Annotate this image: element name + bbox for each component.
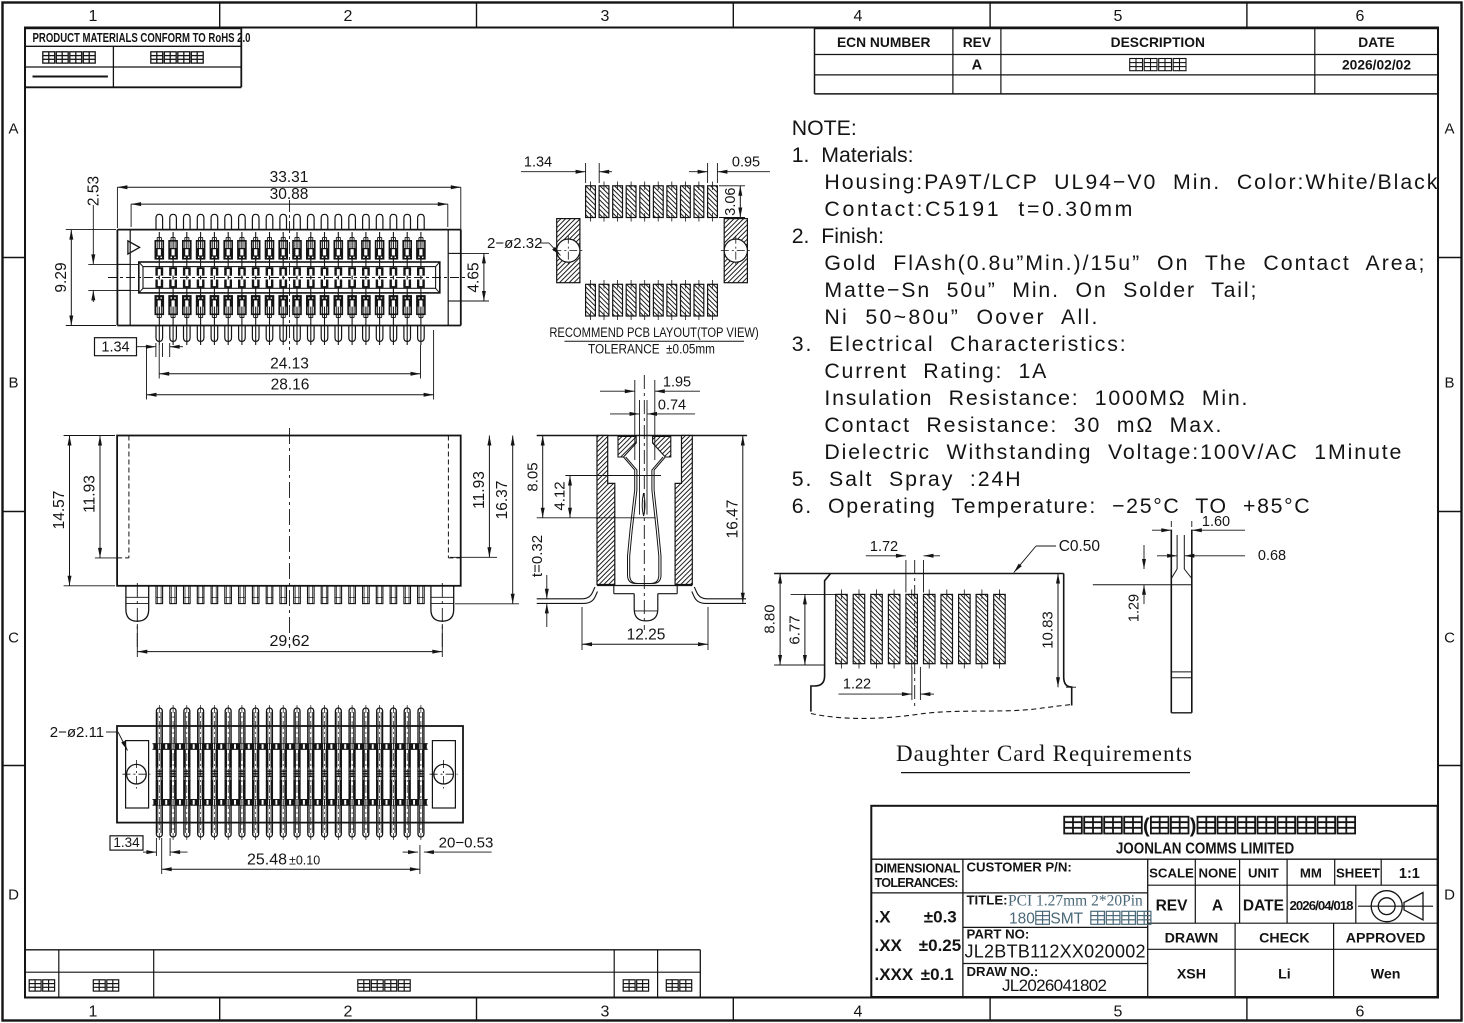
svg-text:±0.10: ±0.10 [289, 854, 320, 868]
svg-text:0.74: 0.74 [658, 397, 686, 413]
svg-text:JOONLAN COMMS LIMITED: JOONLAN COMMS LIMITED [1116, 841, 1295, 858]
svg-text:±0.25: ±0.25 [919, 936, 961, 955]
svg-text:Housing:PA9T/LCP UL94−V0 Min: Housing:PA9T/LCP UL94−V0 Min. Color:Whit… [824, 170, 1437, 194]
svg-text:.XX: .XX [875, 936, 903, 955]
svg-text:DESCRIPTION: DESCRIPTION [1111, 35, 1205, 50]
svg-text:DATE: DATE [1358, 35, 1395, 50]
svg-text:MM: MM [1300, 866, 1322, 881]
svg-text:1:1: 1:1 [1399, 866, 1420, 882]
svg-text:5: 5 [1114, 8, 1123, 25]
svg-text:APPROVED: APPROVED [1346, 931, 1426, 947]
svg-text:SHEET: SHEET [1336, 866, 1380, 881]
svg-text:1.60: 1.60 [1202, 514, 1230, 530]
svg-text:2−ø2.11: 2−ø2.11 [50, 724, 104, 741]
svg-text:24.13: 24.13 [270, 356, 309, 373]
svg-text:25.48: 25.48 [247, 852, 287, 869]
svg-text:16.47: 16.47 [725, 500, 742, 539]
svg-text:3. Electrical Characteristic: 3. Electrical Characteristics: [792, 332, 1126, 356]
svg-text:A: A [1444, 121, 1454, 138]
svg-text:TOLERANCE ±0.05mm: TOLERANCE ±0.05mm [588, 341, 715, 357]
svg-text:12.25: 12.25 [627, 627, 666, 644]
svg-text:A: A [972, 58, 983, 74]
svg-text:SCALE: SCALE [1149, 866, 1194, 881]
svg-text:6: 6 [1356, 1004, 1365, 1021]
svg-text:TITLE:: TITLE: [967, 893, 1008, 908]
svg-text:(: ( [1143, 816, 1150, 838]
svg-text:1.34: 1.34 [524, 155, 552, 171]
svg-text:NONE: NONE [1198, 866, 1236, 881]
svg-text:A: A [1212, 898, 1223, 915]
svg-text:8.80: 8.80 [762, 604, 779, 633]
svg-text:4.12: 4.12 [552, 481, 569, 510]
svg-text:16.37: 16.37 [494, 481, 511, 520]
svg-text:Matte−Sn 50u” Min. On Sold: Matte−Sn 50u” Min. On Solder Tail; [824, 278, 1256, 302]
svg-text:C: C [8, 630, 19, 647]
svg-text:2. Finish:: 2. Finish: [792, 224, 884, 248]
svg-text:Gold FlAsh(0.8u”Min.)/15u” O: Gold FlAsh(0.8u”Min.)/15u” On The Contac… [824, 251, 1424, 275]
svg-text:2: 2 [344, 1004, 353, 1021]
svg-text:Contact:C5191 t=0.30mm: Contact:C5191 t=0.30mm [824, 197, 1132, 221]
svg-text:28.16: 28.16 [271, 377, 310, 394]
svg-text:Current Rating: 1A: Current Rating: 1A [824, 359, 1047, 383]
svg-text:4.65: 4.65 [466, 262, 483, 292]
svg-text:1: 1 [89, 8, 98, 25]
svg-text:1.95: 1.95 [663, 375, 691, 391]
svg-text:8.05: 8.05 [525, 462, 542, 491]
svg-text:3: 3 [601, 8, 610, 25]
svg-text:.XXX: .XXX [875, 965, 914, 984]
svg-text:33.31: 33.31 [270, 169, 309, 186]
svg-text:PCI 1.27mm 2*20Pin: PCI 1.27mm 2*20Pin [1008, 893, 1143, 910]
svg-text:Insulation Resistance: 1000M: Insulation Resistance: 1000MΩ Min. [824, 386, 1247, 410]
svg-text:30.88: 30.88 [270, 186, 309, 203]
svg-text:Dielectric Withstanding Volt: Dielectric Withstanding Voltage:100V/AC … [824, 440, 1401, 464]
svg-text:0.95: 0.95 [732, 155, 760, 171]
svg-text:5. Salt Spray :24H: 5. Salt Spray :24H [792, 467, 1021, 491]
svg-text:REV: REV [963, 35, 992, 50]
svg-text:Ni 50~80u” Oover All.: Ni 50~80u” Oover All. [824, 305, 1097, 329]
svg-text:UNIT: UNIT [1248, 866, 1279, 881]
svg-text:2.53: 2.53 [86, 176, 103, 206]
svg-text:3: 3 [601, 1004, 610, 1021]
svg-text:Wen: Wen [1371, 967, 1401, 983]
svg-text:±0.1: ±0.1 [921, 965, 954, 984]
svg-text:4: 4 [854, 1004, 863, 1021]
svg-text:29.62: 29.62 [269, 633, 309, 650]
svg-text:C: C [1444, 630, 1455, 647]
svg-text:A: A [8, 121, 18, 138]
svg-text:10.83: 10.83 [1040, 611, 1057, 649]
svg-text:0.68: 0.68 [1258, 548, 1286, 564]
svg-text:1.34: 1.34 [101, 340, 129, 356]
svg-text:6.77: 6.77 [787, 615, 804, 644]
svg-text:TOLERANCES:: TOLERANCES: [875, 876, 959, 890]
svg-text:D: D [8, 887, 19, 904]
svg-text:2026/04/018: 2026/04/018 [1290, 898, 1354, 913]
svg-text:1.72: 1.72 [870, 539, 898, 555]
svg-text:11.93: 11.93 [82, 475, 99, 513]
svg-text:CUSTOMER P/N:: CUSTOMER P/N: [967, 860, 1072, 875]
svg-text:CHECK: CHECK [1259, 931, 1310, 947]
svg-text:XSH: XSH [1177, 967, 1206, 983]
svg-text:11.93: 11.93 [471, 471, 488, 509]
svg-text:±0.3: ±0.3 [924, 908, 957, 927]
svg-text:SMT: SMT [1050, 911, 1087, 928]
svg-text:B: B [8, 375, 18, 392]
svg-text:180: 180 [1009, 911, 1035, 928]
svg-text:DRAWN: DRAWN [1165, 931, 1219, 947]
svg-text:PRODUCT MATERIALS CONFORM TO R: PRODUCT MATERIALS CONFORM TO RoHS 2.0 [33, 32, 251, 46]
svg-text:.X: .X [875, 908, 892, 927]
svg-text:1.34: 1.34 [113, 835, 140, 850]
svg-text:Li: Li [1278, 967, 1291, 983]
svg-text:JL2026041802: JL2026041802 [1002, 976, 1107, 995]
svg-text:NOTE:: NOTE: [792, 116, 857, 140]
svg-text:2026/02/02: 2026/02/02 [1342, 58, 1411, 73]
svg-text:14.57: 14.57 [51, 491, 68, 530]
svg-text:ECN NUMBER: ECN NUMBER [837, 35, 931, 50]
svg-text:4: 4 [854, 8, 863, 25]
svg-text:1. Materials:: 1. Materials: [792, 143, 914, 167]
svg-text:B: B [1444, 375, 1454, 392]
svg-text:): ) [1190, 816, 1197, 838]
svg-text:6: 6 [1356, 8, 1365, 25]
svg-text:C0.50: C0.50 [1059, 538, 1101, 555]
svg-text:Daughter Card Requirements: Daughter Card Requirements [896, 741, 1192, 766]
svg-text:DIMENSIONAL: DIMENSIONAL [875, 862, 961, 876]
svg-text:20−0.53: 20−0.53 [439, 835, 494, 852]
svg-text:6. Operating Temperature: −: 6. Operating Temperature: −25°C TO +85°C [792, 494, 1310, 518]
svg-text:RECOMMEND PCB LAYOUT(TOP VIEW): RECOMMEND PCB LAYOUT(TOP VIEW) [549, 325, 758, 340]
svg-text:D: D [1444, 887, 1455, 904]
svg-text:1.22: 1.22 [843, 677, 871, 693]
svg-text:2: 2 [344, 8, 353, 25]
svg-text:DATE: DATE [1243, 898, 1284, 915]
svg-text:t=0.32: t=0.32 [529, 535, 546, 577]
svg-text:5: 5 [1114, 1004, 1123, 1021]
svg-text:2−ø2.32: 2−ø2.32 [487, 235, 542, 252]
svg-text:3.06: 3.06 [723, 187, 739, 215]
svg-text:1: 1 [89, 1004, 98, 1021]
svg-text:JL2BTB112XX020002: JL2BTB112XX020002 [965, 942, 1146, 962]
svg-text:9.29: 9.29 [53, 262, 70, 292]
svg-text:PART NO:: PART NO: [967, 927, 1030, 942]
svg-text:1.29: 1.29 [1127, 594, 1143, 622]
svg-text:REV: REV [1156, 898, 1189, 915]
